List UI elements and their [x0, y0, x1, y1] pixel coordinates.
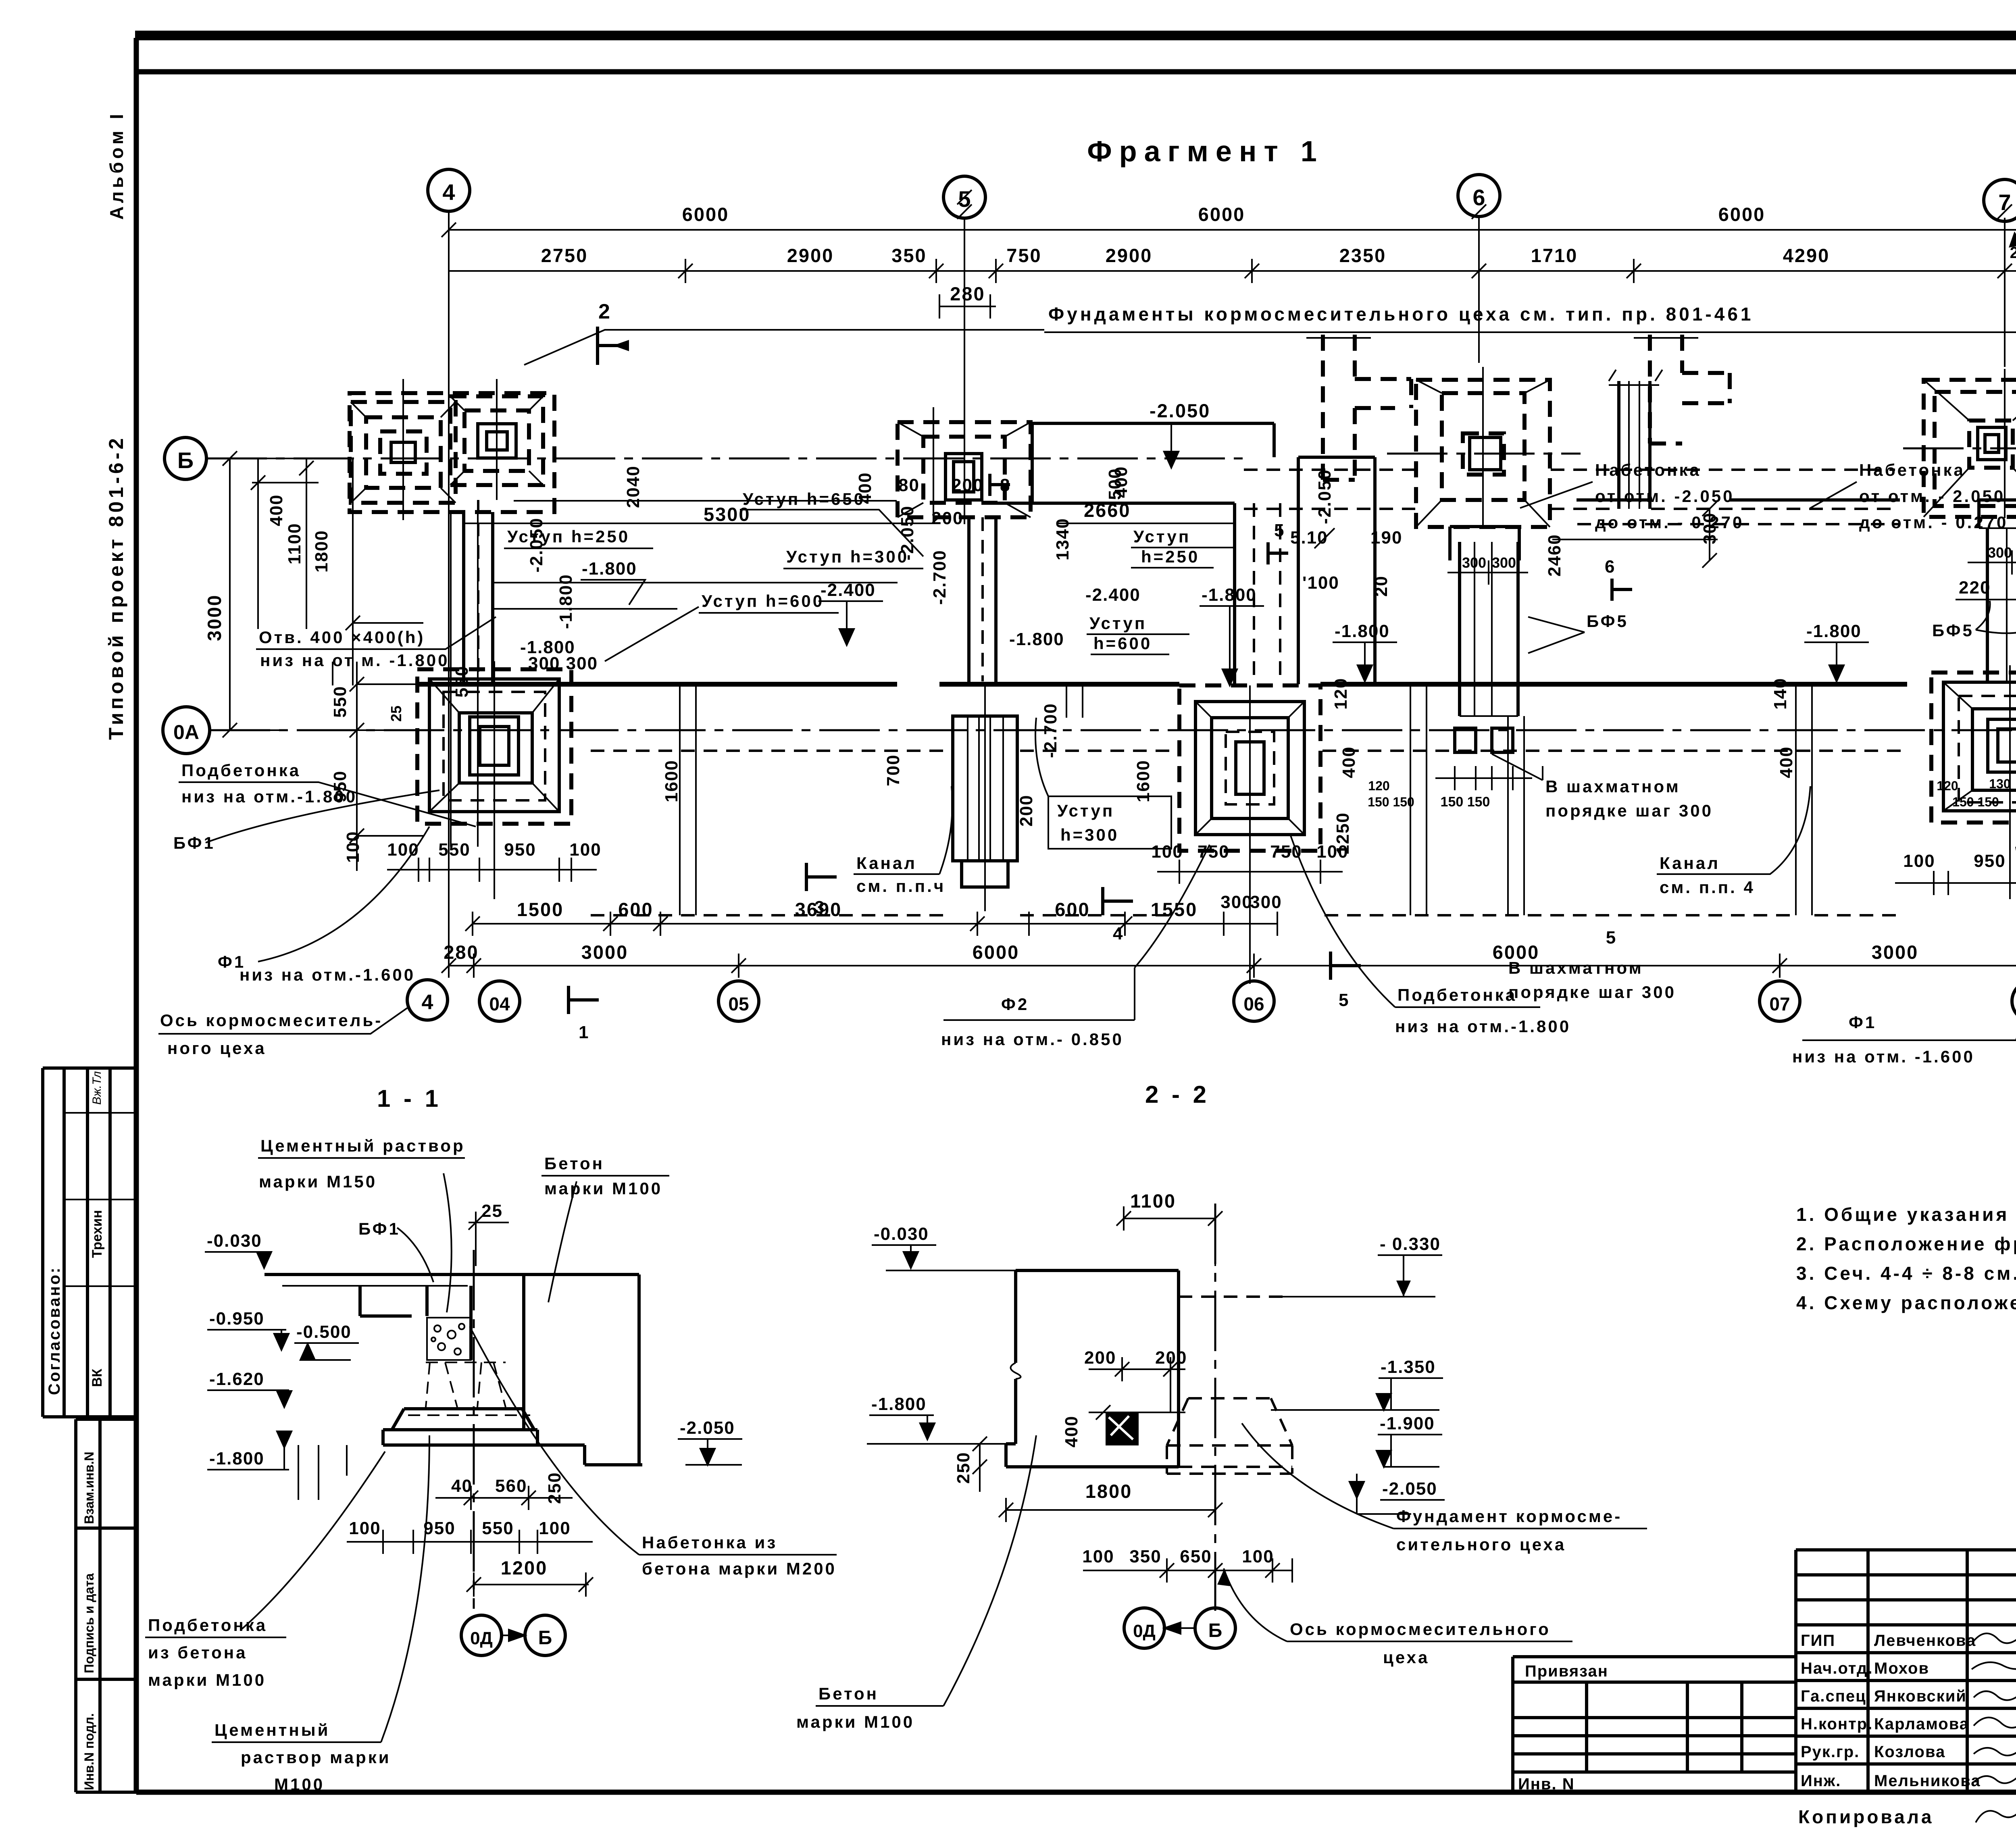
- svg-text:550: 550: [330, 686, 350, 718]
- axis dash-dot vertical: [473, 1250, 475, 1609]
- svg-text:М100: М100: [274, 1775, 325, 1794]
- svg-text:120: 120: [1331, 678, 1351, 710]
- svg-text:400: 400: [1062, 1416, 1081, 1447]
- svg-text:950: 950: [423, 1518, 455, 1538]
- svg-text:150 150: 150 150: [1441, 794, 1490, 810]
- axis circle 6 top: [1458, 175, 1500, 217]
- svg-text:2 - 2: 2 - 2: [1145, 1081, 1210, 1108]
- svg-text:Уступ h=650: Уступ h=650: [743, 489, 865, 508]
- svg-text:04: 04: [489, 993, 510, 1014]
- -2.050 step top middle: [1032, 423, 1274, 503]
- bottom annotation Копировала: [1798, 1802, 2016, 1833]
- wall pair below cluster 4Б: [464, 512, 493, 684]
- svg-text:Уступ: Уступ: [1057, 801, 1114, 820]
- pit step -2.050: [585, 1445, 642, 1465]
- svg-text:Цементный: Цементный: [215, 1720, 330, 1739]
- svg-text:В шахматном: В шахматном: [1545, 777, 1681, 796]
- svg-text:марки М100: марки М100: [796, 1712, 914, 1731]
- cluster 4Б right nested squares: [450, 396, 543, 485]
- svg-text:2750: 2750: [541, 245, 588, 266]
- axis circles 0А and Б below: [461, 1615, 502, 1656]
- svg-text:4. Схему расположения канал: 4. Схему расположения каналов см. лист 1…: [1796, 1292, 2016, 1313]
- svg-text:Уступ h=300: Уступ h=300: [786, 547, 909, 566]
- svg-text:марки М100: марки М100: [148, 1670, 266, 1689]
- foundation Ф2 at axis 06: [1179, 685, 1320, 984]
- svg-text:см. п.п. 4: см. п.п. 4: [1660, 878, 1755, 897]
- svg-text:марки М150: марки М150: [259, 1172, 377, 1191]
- svg-text:400: 400: [1339, 746, 1359, 778]
- svg-text:БФ1: БФ1: [358, 1219, 400, 1238]
- svg-text:Канал: Канал: [1660, 854, 1720, 873]
- svg-text:Трехин: Трехин: [90, 1210, 105, 1258]
- hatched column below axis 6 cluster (БФ5): [1447, 502, 1720, 716]
- svg-text:2900: 2900: [787, 245, 834, 266]
- svg-text:1: 1: [579, 1023, 589, 1042]
- cluster 4Б left nested squares: [351, 402, 456, 503]
- svg-text:-1.800: -1.800: [1335, 621, 1390, 641]
- svg-text:h=600: h=600: [1093, 634, 1152, 653]
- dashed channel piece between axes 5-6: [1306, 335, 1411, 480]
- left vertical dim 3000 between Б and 0А: [218, 451, 306, 737]
- svg-text:300: 300: [1250, 892, 1282, 912]
- svg-text:0Д: 0Д: [1133, 1621, 1156, 1641]
- svg-text:150 150: 150 150: [1952, 795, 1999, 809]
- svg-text:130: 130: [1989, 777, 2010, 791]
- svg-text:Ф1: Ф1: [1849, 1013, 1876, 1032]
- svg-text:ВК: ВК: [90, 1368, 105, 1387]
- svg-text:550: 550: [438, 840, 470, 860]
- svg-text:3000: 3000: [581, 941, 629, 963]
- svg-text:280: 280: [444, 941, 479, 963]
- svg-text:2900: 2900: [1106, 245, 1153, 266]
- mortar stipple block: [427, 1318, 471, 1360]
- svg-text:300: 300: [1988, 544, 2012, 561]
- svg-text:марки М100: марки М100: [544, 1179, 662, 1198]
- border frame outer top: [135, 31, 2016, 40]
- bottom axis circle 06: [1234, 981, 1274, 1021]
- svg-text:низ на отм. -1.600: низ на отм. -1.600: [1792, 1047, 1975, 1066]
- foundation cluster at axis 5 / Б: [898, 407, 1031, 524]
- axis Б dash-dot through axis-7 cluster: [1903, 448, 2016, 450]
- foundation cluster at axis 7 / Б: [1924, 369, 2016, 518]
- svg-text:300: 300: [1462, 554, 1486, 571]
- hatched column below axis 7 cluster: [1956, 500, 2016, 681]
- svg-text:1. Общие указания см. листы: 1. Общие указания см. листы 1,2.: [1796, 1204, 2016, 1225]
- step lines left zone: [493, 501, 898, 609]
- svg-text:5: 5: [1606, 928, 1616, 948]
- axis 7 vertical line: [2004, 221, 2006, 367]
- svg-text:Фундаменты кормосмесительного: Фундаменты кормосмесительного цеха см. т…: [1048, 304, 1754, 325]
- svg-text:1100: 1100: [285, 523, 304, 564]
- axis circle 4 top: [428, 169, 470, 211]
- svg-text:до отм. - 0.270: до отм. - 0.270: [1859, 513, 2008, 532]
- svg-text:Янковский: Янковский: [1874, 1687, 1967, 1705]
- column centerlines through cluster 4Б: [403, 379, 497, 684]
- svg-text:раствор марки: раствор марки: [241, 1748, 391, 1767]
- svg-text:БФ5: БФ5: [1587, 612, 1629, 631]
- svg-text:Вж.Тл: Вж.Тл: [90, 1071, 104, 1105]
- svg-text:120: 120: [1368, 779, 1389, 793]
- svg-text:-1.900: -1.900: [1380, 1414, 1435, 1433]
- svg-text:100: 100: [1242, 1547, 1274, 1566]
- svg-text:низ на отм.-1.800: низ на отм.-1.800: [181, 787, 357, 806]
- wall strips vertical pairs lower band: [451, 512, 2016, 915]
- svg-text:5: 5: [1274, 521, 1285, 540]
- svg-text:Фундамент кормосме-: Фундамент кормосме-: [1396, 1507, 1622, 1526]
- axis 5 vertical line: [964, 218, 965, 444]
- bottom axis circle 05: [719, 981, 759, 1021]
- section mark 1 bottom: [569, 986, 599, 1014]
- svg-text:Инв.N подл.: Инв.N подл.: [82, 1713, 96, 1790]
- svg-text:Отв. 400 ×400(h): Отв. 400 ×400(h): [259, 628, 425, 647]
- dims 100 950 550 100: [347, 1530, 593, 1554]
- svg-text:1200: 1200: [501, 1557, 548, 1579]
- bottom axis circle 08: [2012, 981, 2016, 1021]
- axis 0А dash-dot line: [210, 729, 2016, 731]
- svg-text:Га.спец.: Га.спец.: [1801, 1687, 1872, 1705]
- column foot trapezoids: [426, 1362, 457, 1407]
- svg-text:Мельникова: Мельникова: [1874, 1772, 1981, 1790]
- svg-text:300: 300: [1220, 892, 1252, 912]
- small dims 400/1100/1800 left: [251, 458, 319, 629]
- svg-text:550: 550: [482, 1518, 514, 1538]
- svg-text:ГИП: ГИП: [1801, 1632, 1835, 1649]
- svg-text:4290: 4290: [1783, 245, 1830, 266]
- svg-text:950: 950: [504, 840, 536, 860]
- svg-text:100: 100: [569, 840, 601, 860]
- bottom axis circle 4: [407, 980, 448, 1020]
- svg-text:6000: 6000: [1718, 204, 1766, 225]
- top dimension row 1 (6000 x3): [449, 218, 2016, 242]
- base pedestal: [392, 1409, 534, 1430]
- svg-text:Левченкова: Левченкова: [1874, 1632, 1976, 1649]
- svg-text:низ на отм.-1.600: низ на отм.-1.600: [240, 965, 415, 984]
- svg-text:Б: Б: [538, 1627, 552, 1649]
- svg-text:25: 25: [481, 1201, 503, 1221]
- svg-text:220: 220: [1959, 578, 1991, 598]
- svg-text:350: 350: [891, 245, 927, 266]
- svg-text:3. Сеч. 4-4 ÷ 8-8 см. лист 1: 3. Сеч. 4-4 ÷ 8-8 см. лист 14.: [1796, 1263, 2016, 1284]
- svg-text:6: 6: [1605, 557, 1615, 577]
- axis 6 vertical line: [1478, 217, 1480, 363]
- svg-text:07: 07: [1769, 993, 1790, 1014]
- svg-text:100: 100: [349, 1518, 381, 1538]
- svg-text:Набетонка из: Набетонка из: [642, 1533, 777, 1552]
- svg-text:1800: 1800: [312, 530, 331, 573]
- svg-text:6000: 6000: [973, 941, 1020, 963]
- svg-text:Уступ h=600: Уступ h=600: [702, 591, 824, 610]
- bottom dim row 1: [465, 912, 1029, 936]
- svg-text:Бетон: Бетон: [818, 1684, 879, 1703]
- dim 5300: [464, 523, 939, 524]
- axis circle Б left: [165, 437, 206, 479]
- svg-text:Уступ: Уступ: [1089, 614, 1147, 633]
- svg-text:750: 750: [1006, 245, 1041, 266]
- svg-text:550: 550: [452, 666, 472, 698]
- svg-text:05: 05: [728, 993, 749, 1014]
- svg-text:порядке шаг 300: порядке шаг 300: [1545, 801, 1713, 820]
- svg-text:1 - 1: 1 - 1: [377, 1085, 442, 1112]
- long wall line below 0А row top: [415, 682, 2016, 687]
- svg-text:-1.800: -1.800: [556, 574, 576, 629]
- svg-text:-1.800: -1.800: [1806, 621, 1862, 641]
- svg-text:400: 400: [267, 494, 286, 526]
- svg-text:25: 25: [388, 706, 404, 722]
- svg-text:Альбом I: Альбом I: [106, 111, 127, 220]
- svg-text:1100: 1100: [1130, 1190, 1176, 1212]
- svg-text:140: 140: [1770, 678, 1790, 710]
- svg-text:1800: 1800: [1085, 1481, 1133, 1502]
- bottom axis circle 04: [479, 981, 520, 1021]
- svg-text:Копировала: Копировала: [1798, 1806, 1934, 1827]
- svg-text:-2.050: -2.050: [898, 505, 917, 560]
- svg-text:200: 200: [1084, 1348, 1116, 1368]
- axis Б dash-dot through axis-6 cluster: [1387, 453, 1581, 455]
- svg-text:Подбетонка: Подбетонка: [1397, 985, 1517, 1004]
- svg-text:100: 100: [343, 831, 363, 863]
- svg-text:Бетон: Бетон: [544, 1154, 604, 1173]
- svg-text:цеха: цеха: [1383, 1648, 1429, 1667]
- svg-text:из бетона: из бетона: [148, 1643, 248, 1662]
- section mark 3 left: [806, 863, 837, 891]
- svg-text:Типовой проект 801-6-2: Типовой проект 801-6-2: [105, 435, 127, 740]
- svg-text:300: 300: [1492, 554, 1516, 571]
- svg-text:4: 4: [1113, 924, 1123, 943]
- svg-text:2. Расположение фрагмента: 2. Расположение фрагмента см. лист 11.: [1796, 1233, 2016, 1254]
- hatched strip БФ4: [953, 685, 1017, 911]
- svg-text:БФ1: БФ1: [173, 833, 215, 852]
- svg-text:Н.контр.: Н.контр.: [1801, 1715, 1873, 1733]
- axis circle 7 top: [1984, 179, 2016, 221]
- svg-text:400: 400: [855, 472, 875, 504]
- svg-text:Цементный раствор: Цементный раствор: [260, 1136, 465, 1155]
- svg-text:-0.500: -0.500: [296, 1322, 352, 1342]
- svg-text:280: 280: [950, 283, 985, 304]
- svg-text:Фрагмент 1: Фрагмент 1: [1087, 135, 1324, 168]
- dashed foundation trapezoid: [1167, 1398, 1292, 1474]
- svg-text:950: 950: [1974, 851, 2006, 871]
- svg-text:'100: '100: [1302, 573, 1339, 593]
- БФ1 beam outline: [360, 1286, 427, 1316]
- hatched wall strip between axes 6-7 above Б: [1609, 370, 1662, 509]
- svg-text:100: 100: [539, 1518, 571, 1538]
- svg-text:Инж.: Инж.: [1801, 1772, 1841, 1790]
- svg-text:низ на отм.-1.800: низ на отм.-1.800: [1395, 1017, 1571, 1036]
- right concrete edge verticals: [471, 1274, 639, 1465]
- dim chain under cluster 04: 100 550 950 100: [387, 840, 602, 882]
- svg-text:400: 400: [1111, 466, 1131, 498]
- top dimension row 2: [449, 259, 2016, 283]
- svg-text:80: 80: [898, 475, 920, 495]
- foundation cluster at axis 6 / Б: [1416, 367, 1550, 528]
- svg-text:Б: Б: [1208, 1620, 1223, 1641]
- dashed level -0.330 to right: [1179, 1295, 1283, 1298]
- hatched square: [1106, 1412, 1139, 1445]
- svg-text:1600: 1600: [662, 760, 681, 802]
- svg-text:-1.800: -1.800: [871, 1394, 927, 1414]
- dim chain under cluster 08: 100 950 550 100: [1895, 851, 2016, 895]
- svg-text:5.10: 5.10: [1290, 528, 1328, 548]
- svg-text:200: 200: [952, 475, 983, 495]
- svg-text:560: 560: [495, 1476, 527, 1496]
- pit rectangle between axes 5 and 6: [969, 457, 1375, 684]
- svg-text:-2.400: -2.400: [1085, 585, 1141, 605]
- svg-text:2460: 2460: [1545, 534, 1564, 577]
- svg-text:3000: 3000: [1872, 941, 1919, 963]
- svg-text:150 150: 150 150: [1368, 795, 1414, 809]
- foundation cluster at axis 4 / Б : outer dashed rect: [350, 379, 554, 684]
- svg-text:-2.050: -2.050: [527, 517, 546, 573]
- svg-text:см. п.п.ч: см. п.п.ч: [856, 877, 946, 895]
- svg-text:Ось кормосмеситель-: Ось кормосмеситель-: [160, 1011, 383, 1030]
- bottom dim row 2: [449, 954, 2016, 978]
- axis circles 0А and Б below 2-2: [1124, 1608, 1164, 1648]
- svg-text:1550: 1550: [1151, 899, 1198, 920]
- svg-text:20: 20: [1371, 575, 1391, 597]
- svg-text:до отм. - 0.270: до отм. - 0.270: [1595, 513, 1744, 532]
- long dashed line lower boundary: [591, 914, 1903, 916]
- svg-text:Нач.отд.: Нач.отд.: [1801, 1660, 1873, 1677]
- svg-text:120: 120: [1937, 779, 1958, 793]
- svg-text:700: 700: [883, 754, 903, 786]
- svg-text:бетона марки М200: бетона марки М200: [642, 1559, 837, 1578]
- svg-text:Набетонка: Набетонка: [1595, 460, 1701, 479]
- long dashed line below 0А: [591, 750, 2016, 752]
- svg-text:Набетонка: Набетонка: [1859, 460, 1965, 479]
- section mark 5 bottom: [1331, 952, 1361, 980]
- svg-text:h=300: h=300: [1060, 825, 1119, 844]
- svg-text:2040: 2040: [623, 465, 643, 508]
- svg-text:350: 350: [1129, 1547, 1161, 1566]
- svg-text:40: 40: [451, 1476, 473, 1496]
- base slab: [383, 1430, 585, 1445]
- svg-text:В шахматном: В шахматном: [1508, 958, 1643, 977]
- svg-text:порядке шаг 300: порядке шаг 300: [1508, 983, 1676, 1002]
- svg-text:-1.800: -1.800: [1009, 629, 1064, 649]
- svg-text:100: 100: [1903, 851, 1935, 871]
- svg-text:5: 5: [1339, 990, 1349, 1010]
- svg-text:-2.050: -2.050: [1150, 400, 1210, 421]
- svg-text:Ф2: Ф2: [1001, 995, 1029, 1014]
- axis circle 0А left: [163, 707, 210, 754]
- svg-text:Б: Б: [177, 448, 194, 473]
- vertical dim 1200/550/950 chain left of cluster B1: [333, 662, 423, 871]
- sidebar table lower (Взам.инв, Подпись и дата, Инв.N подл.): [76, 1419, 136, 1792]
- svg-text:Привязан: Привязан: [1525, 1662, 1608, 1680]
- svg-text:Подбетонка: Подбетонка: [148, 1616, 267, 1635]
- foundation Ф1/БФ1 at axis 08: [1931, 517, 2016, 990]
- svg-text:4: 4: [442, 179, 455, 205]
- signatures (squiggles): [1974, 1631, 2016, 1643]
- svg-text:-2.400: -2.400: [821, 580, 876, 600]
- svg-text:250: 250: [954, 1452, 973, 1484]
- svg-text:низ на от м. -1.800: низ на от м. -1.800: [260, 651, 449, 670]
- svg-text:-1.620: -1.620: [209, 1369, 264, 1389]
- section 2-2 concrete outline: [1006, 1270, 1179, 1467]
- svg-text:Карламова: Карламова: [1874, 1715, 1969, 1733]
- svg-text:-1.350: -1.350: [1381, 1357, 1436, 1377]
- svg-text:400: 400: [1776, 746, 1796, 778]
- axis Б dash-dot line: [206, 458, 1250, 460]
- svg-text:650: 650: [1180, 1547, 1212, 1566]
- svg-text:-1.800: -1.800: [1202, 585, 1257, 605]
- section 1-1 top slab: [264, 1273, 639, 1276]
- svg-text:Канал: Канал: [856, 854, 917, 873]
- svg-text:600: 600: [1055, 899, 1090, 920]
- svg-text:Подбетонка: Подбетонка: [181, 761, 301, 780]
- svg-text:0Д: 0Д: [470, 1629, 493, 1648]
- svg-text:Подпись и дата: Подпись и дата: [82, 1573, 96, 1673]
- svg-text:6000: 6000: [682, 204, 729, 225]
- svg-text:БФ5: БФ5: [1932, 621, 1974, 640]
- svg-text:Уступ: Уступ: [1133, 527, 1191, 546]
- svg-text:Ось кормосмесительного: Ось кормосмесительного: [1290, 1620, 1551, 1639]
- axis dash-dot vertical: [1214, 1204, 1216, 1611]
- svg-text:4: 4: [422, 991, 433, 1014]
- foundation Ф1/БФ1 at axis 04: [417, 661, 571, 954]
- axis 4 vertical line: [448, 211, 450, 407]
- svg-text:300 300: 300 300: [528, 654, 598, 673]
- svg-text:Козлова: Козлова: [1874, 1743, 1945, 1761]
- leader Фундаменты кормосмесительного цеха: [524, 330, 2016, 365]
- step wall right of axis 6: [1577, 498, 1900, 502]
- svg-text:-0.950: -0.950: [209, 1309, 264, 1329]
- svg-text:-2.700: -2.700: [930, 550, 950, 605]
- svg-text:200: 200: [931, 508, 963, 528]
- dim chain under Ф2: 100 750 750 100: [1151, 842, 1348, 884]
- svg-text:-2.050: -2.050: [1315, 469, 1335, 524]
- svg-text:1250: 1250: [1333, 812, 1353, 855]
- svg-text:1600: 1600: [1133, 760, 1153, 802]
- svg-text:ного цеха: ного цеха: [167, 1039, 267, 1058]
- svg-text:-1.800: -1.800: [209, 1449, 264, 1468]
- svg-text:0А: 0А: [173, 721, 199, 743]
- axis circle 5 top: [943, 176, 985, 218]
- svg-text:250: 250: [545, 1472, 564, 1504]
- svg-text:-0.030: -0.030: [874, 1224, 929, 1244]
- svg-text:-2.700: -2.700: [1041, 703, 1060, 758]
- svg-text:2: 2: [598, 300, 611, 323]
- svg-text:-1.800: -1.800: [582, 559, 637, 579]
- svg-text:-2.050: -2.050: [1382, 1479, 1437, 1499]
- svg-text:200: 200: [1016, 795, 1036, 827]
- title block personnel table: [1796, 1550, 2016, 1792]
- svg-text:от отм. - 2.050: от отм. - 2.050: [1859, 487, 2005, 506]
- svg-text:2660: 2660: [1084, 500, 1131, 521]
- svg-text:-0.030: -0.030: [207, 1231, 262, 1251]
- pit floor hatch left: [298, 1445, 347, 1500]
- title block left small table (Привязан): [1513, 1657, 1796, 1793]
- svg-text:2350: 2350: [1339, 245, 1387, 266]
- svg-text:низ на отм.- 0.850: низ на отм.- 0.850: [941, 1030, 1124, 1049]
- svg-text:сительного цеха: сительного цеха: [1396, 1535, 1566, 1554]
- sidebar table Согласовано: [43, 1068, 136, 1417]
- svg-text:6000: 6000: [1198, 204, 1245, 225]
- svg-text:Мохов: Мохов: [1874, 1660, 1929, 1677]
- svg-text:1710: 1710: [1531, 245, 1578, 266]
- svg-text:100: 100: [1082, 1547, 1114, 1566]
- svg-text:h=250: h=250: [1141, 547, 1200, 566]
- svg-text:от отм. -2.050: от отм. -2.050: [1595, 487, 1735, 506]
- break squiggle: [1011, 1363, 1021, 1379]
- svg-text:Уступ h=250: Уступ h=250: [507, 527, 630, 546]
- svg-text:06: 06: [1243, 993, 1264, 1014]
- svg-text:- 0.330: - 0.330: [1380, 1234, 1441, 1254]
- svg-text:Рук.гр.: Рук.гр.: [1801, 1743, 1860, 1761]
- dashed channel piece 2 (axis 6-7): [1634, 335, 1730, 444]
- svg-text:Согласовано:: Согласовано:: [46, 1266, 63, 1395]
- bottom axis circle 07: [1760, 981, 1800, 1021]
